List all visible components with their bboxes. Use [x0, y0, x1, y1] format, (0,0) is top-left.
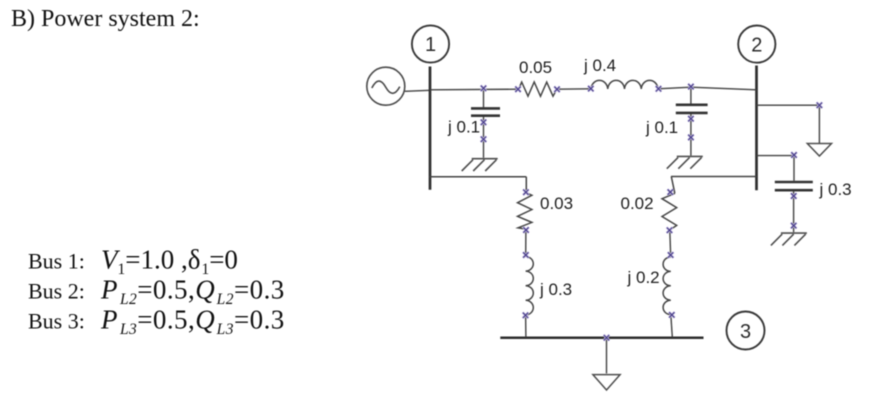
svg-text:j 0.3: j 0.3: [819, 180, 852, 199]
svg-text:0.05: 0.05: [519, 58, 552, 77]
junction marker below left j0.1 capacitor upper: [481, 119, 487, 125]
svg-text:3: 3: [740, 321, 751, 343]
wire bus2 to 0.02 branch: [671, 177, 757, 194]
resistor 0.05: [519, 82, 557, 96]
svg-text:j 0.2: j 0.2: [627, 268, 660, 287]
ground under j0.3 capacitor: [771, 233, 807, 245]
junction marker j0.3 branch corner: [791, 152, 797, 158]
capacitor j0.1 left : top stub wire: [483, 89, 485, 107]
svg-text:V1=1.0 ,δ1=0: V1=1.0 ,δ1=0: [101, 245, 238, 279]
inductor j0.3: [526, 257, 534, 315]
junction marker top of right j0.1 capacitor: [688, 84, 694, 90]
capacitor j0.3 bottom wire to ground: [793, 191, 795, 232]
svg-text:PL2=0.5,QL2=0.3: PL2=0.5,QL2=0.3: [100, 275, 285, 309]
svg-text:PL3=0.5,QL3=0.3: PL3=0.5,QL3=0.3: [100, 305, 285, 339]
junction marker top of inductor j0.2: [668, 252, 674, 258]
bus 3 bar: [500, 336, 703, 339]
bus 2 bar: [755, 66, 758, 191]
node Bus 2 data line: [28, 275, 285, 309]
junction marker left of resistor 0.05: [515, 86, 521, 92]
junction marker bottom of inductor j0.2: [669, 312, 675, 318]
junction marker right of inductor j0.4: [656, 86, 662, 92]
wire generator to bus 1: [405, 90, 430, 91]
svg-text:j 0.1: j 0.1: [645, 118, 678, 137]
ground under right j0.1 capacitor: [667, 156, 703, 168]
generator G1 (AC source): [367, 67, 405, 105]
junction marker bottom of inductor j0.3: [523, 312, 529, 318]
capacitor j0.3 plates: [775, 182, 813, 190]
svg-text:B) Power system 2:: B) Power system 2:: [11, 6, 200, 32]
wire inductor j0.4 to bus 2: [658, 87, 757, 90]
ground triangle right of bus 2: [807, 144, 831, 157]
wire bus3 to ground: [606, 338, 608, 373]
junction marker bottom of resistor 0.03: [523, 227, 529, 233]
wire resistor 0.02 to inductor j0.2: [669, 231, 672, 257]
node Bus 3 data line: [28, 305, 285, 339]
svg-text:0.02: 0.02: [621, 194, 654, 213]
svg-text:Bus 3:: Bus 3:: [28, 309, 85, 334]
node Bus 1 data line: [28, 245, 238, 279]
junction marker top of inductor j0.3: [523, 252, 529, 258]
node label circle 2: [738, 25, 775, 62]
junction marker below left j0.1 capacitor lower: [481, 136, 487, 142]
junction marker bottom of resistor 0.02: [667, 227, 673, 233]
svg-text:1: 1: [425, 34, 436, 56]
wire bus2 to right ground branch: [757, 105, 820, 143]
resistor 0.03: [518, 193, 532, 230]
junction marker right of resistor 0.05: [554, 86, 560, 92]
junction marker top of resistor 0.03: [523, 189, 529, 195]
node label circle 1: [412, 25, 449, 62]
bus data text block: [28, 245, 285, 339]
inductor j0.2: [663, 257, 671, 315]
svg-text:Bus 1:: Bus 1:: [28, 249, 85, 274]
junction marker left of inductor j0.4: [588, 86, 594, 92]
junction marker below right j0.1 capacitor lower: [688, 135, 694, 141]
ground triangle under bus 3: [593, 375, 620, 390]
capacitor j0.1 right : top stub wire: [690, 87, 692, 103]
inductor j0.4: [591, 80, 658, 89]
capacitor j0.1 left plates: [471, 108, 500, 115]
capacitor j0.1 left : bottom wire to ground: [483, 117, 485, 158]
junction marker right ground branch corner: [817, 102, 823, 108]
wire bus1 to resistor 0.05: [430, 88, 518, 91]
junction marker top of left j0.1 capacitor: [481, 85, 487, 91]
bus 1 bar: [429, 67, 432, 190]
svg-text:j 0.3: j 0.3: [539, 280, 572, 299]
heading text "B) Power system 2:": [11, 6, 200, 32]
junction marker below right j0.1 capacitor upper: [688, 116, 694, 122]
wire bus1 to 0.03 branch: [430, 177, 527, 192]
junction marker bus 3 center: [604, 335, 610, 341]
node label circle 3: [727, 312, 765, 350]
wire bus2 to capacitor j0.3: [757, 156, 795, 181]
svg-text:j 0.4: j 0.4: [583, 56, 616, 75]
svg-text:Bus 2:: Bus 2:: [28, 279, 85, 304]
capacitor j0.1 right plates: [676, 105, 708, 113]
svg-text:2: 2: [751, 34, 762, 56]
wire resistor 0.05 to inductor j0.4: [557, 88, 591, 90]
junction marker top of resistor 0.02: [667, 189, 673, 195]
svg-text:0.03: 0.03: [540, 194, 573, 213]
wire resistor 0.03 to inductor j0.3: [525, 229, 527, 257]
wire inductor j0.3 to bus 3: [525, 315, 527, 337]
junction marker below j0.3 capacitor lower: [791, 223, 797, 229]
capacitor j0.1 right : bottom wire to ground: [690, 114, 692, 156]
resistor 0.02: [662, 193, 677, 230]
wire inductor j0.2 to bus 3: [671, 315, 673, 337]
ground under left j0.1 capacitor: [462, 159, 498, 171]
junction marker below j0.3 capacitor upper: [791, 193, 797, 199]
svg-text:j 0.1: j 0.1: [447, 118, 480, 137]
